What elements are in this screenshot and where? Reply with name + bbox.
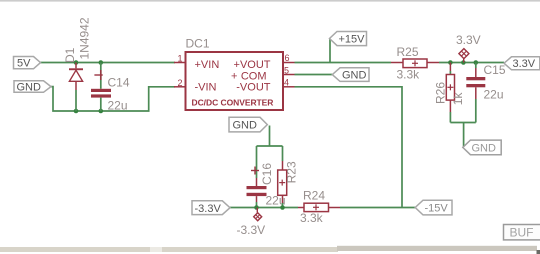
window top edge <box>0 0 540 2</box>
wire GND middle drop <box>269 126 271 147</box>
resistor R25 <box>391 59 439 68</box>
resistor R24 <box>298 203 340 211</box>
svg-text:4: 4 <box>284 78 289 88</box>
svg-text:D1: D1 <box>63 47 77 63</box>
node junction diode top <box>74 60 79 65</box>
resistor R23 <box>278 146 287 208</box>
svg-text:22u: 22u <box>484 88 504 102</box>
wire 3.3V rail <box>439 62 504 64</box>
flag GND left <box>14 81 51 94</box>
IC DC1 DC/DC converter <box>186 52 284 110</box>
svg-text:5V: 5V <box>17 57 31 69</box>
capacitor C16 <box>247 146 267 208</box>
wire R26/C15 bottom join <box>450 122 475 124</box>
svg-text:-VOUT: -VOUT <box>236 82 271 94</box>
svg-text:DC/DC CONVERTER: DC/DC CONVERTER <box>192 97 274 107</box>
svg-text:1: 1 <box>177 54 182 64</box>
wire 5V rail to DC1 pin1 <box>41 62 176 64</box>
node junction diode bottom <box>74 109 79 114</box>
node junction R26 top <box>448 60 453 65</box>
pin 5 stub <box>283 74 295 76</box>
diode D1 <box>69 63 83 112</box>
wire pin6 rail <box>295 62 392 64</box>
flag GND middle <box>229 117 267 132</box>
pin 6 stub <box>283 62 295 64</box>
capacitor C14 <box>91 63 111 112</box>
svg-text:C15: C15 <box>484 63 506 77</box>
svg-text:GND: GND <box>17 81 42 93</box>
svg-text:22u: 22u <box>108 99 128 113</box>
svg-text:3.3V: 3.3V <box>456 33 481 47</box>
svg-text:1k: 1k <box>451 92 465 106</box>
wire +15V drop <box>329 39 331 63</box>
wire pin4 to -15V vertical <box>295 87 403 208</box>
flag -15V <box>415 200 452 215</box>
flag +15V <box>330 32 367 46</box>
node junction 3.3V supply <box>461 60 466 65</box>
svg-text:R23: R23 <box>285 161 299 183</box>
scrollbar nub <box>537 250 540 254</box>
svg-text:+VOUT: +VOUT <box>234 59 271 71</box>
svg-text:GND: GND <box>472 143 497 155</box>
svg-text:3.3k: 3.3k <box>397 67 421 81</box>
svg-text:R25: R25 <box>397 45 419 59</box>
node junction C15 top <box>474 60 479 65</box>
svg-text:BUF: BUF <box>510 226 534 240</box>
svg-text:C16: C16 <box>260 163 274 185</box>
svg-text:2: 2 <box>177 78 182 88</box>
svg-text:1N4942: 1N4942 <box>78 17 92 59</box>
svg-text:+15V: +15V <box>339 34 366 46</box>
pin 4 stub <box>283 86 295 88</box>
svg-text:3.3V: 3.3V <box>513 58 536 70</box>
flag GND right <box>332 68 369 82</box>
button BUF <box>504 225 540 240</box>
node junction R23 bottom <box>280 205 285 210</box>
pin 2 stub <box>174 86 186 88</box>
resistor R26 <box>446 63 454 123</box>
wire pin5 to GND flag <box>295 74 333 76</box>
flag -3.3V <box>192 201 230 215</box>
svg-text:-3.3V: -3.3V <box>195 203 222 215</box>
flag 3.3V right <box>504 57 540 70</box>
flag 5V <box>14 57 41 70</box>
svg-text:-3.3V: -3.3V <box>237 223 266 237</box>
svg-text:C14: C14 <box>108 76 130 90</box>
flag GND bottom right <box>463 140 501 155</box>
wire C16/R23 top net <box>257 145 283 147</box>
pin 1 stub <box>174 62 186 64</box>
node junction C16 bottom <box>254 205 259 210</box>
supply symbol -3.3V <box>254 208 262 221</box>
svg-text:6: 6 <box>285 53 290 63</box>
node junction C14 bottom <box>99 109 104 114</box>
svg-text:-VIN: -VIN <box>195 82 217 94</box>
svg-text:+VIN: +VIN <box>195 59 220 71</box>
capacitor C15 <box>466 63 485 123</box>
svg-text:R26: R26 <box>434 82 448 104</box>
svg-text:DC1: DC1 <box>186 37 210 51</box>
wire -3.3V / -15V bottom net <box>230 207 298 209</box>
svg-text:5: 5 <box>284 66 289 76</box>
wire GND left net <box>51 87 175 111</box>
wire R24 to -15V <box>340 207 415 209</box>
svg-text:-15V: -15V <box>425 203 449 215</box>
svg-text:R24: R24 <box>303 189 325 203</box>
node junction C14 top <box>99 60 104 65</box>
scrollbar thumb <box>337 246 537 251</box>
scrollbar track <box>0 247 338 252</box>
supply symbol 3.3V <box>459 49 469 63</box>
wire drop to GND bottom right <box>463 123 465 147</box>
svg-text:GND: GND <box>342 70 367 82</box>
svg-text:GND: GND <box>233 120 258 132</box>
svg-text:3.3k: 3.3k <box>300 211 324 225</box>
